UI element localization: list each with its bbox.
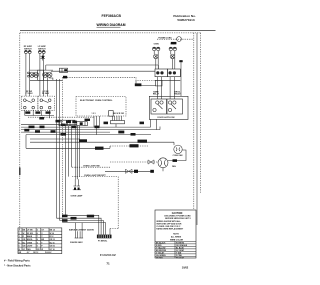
- oven lamp LP1: [154, 54, 159, 59]
- bus wire y115: [25, 115, 54, 117]
- wire label blob on y77: [63, 76, 67, 79]
- terminal block TB1: [153, 44, 160, 51]
- EOC pins left: [94, 116, 99, 135]
- wire junction run (y80): [30, 78, 63, 80]
- dashed stub left of box A: [136, 77, 155, 80]
- wire element top/bottom rails: [29, 65, 53, 96]
- wire label y146: [130, 144, 139, 147]
- title WIRING DIAGRAM: [97, 23, 126, 27]
- oven lamp receptacle: [73, 179, 81, 190]
- wire element feeds: [76, 223, 83, 232]
- svg-text:ELECTRONIC OVEN CONTROL: ELECTRONIC OVEN CONTROL: [80, 100, 113, 102]
- wire labels on bus: [24, 111, 144, 135]
- svg-text:W 600V: W 600V: [45, 252, 52, 254]
- svg-text:P8 240V: P8 240V: [42, 92, 50, 95]
- EOC sub block: [109, 111, 114, 117]
- wire label y142: [138, 140, 148, 143]
- svg-text:OR 12: OR 12: [33, 252, 38, 254]
- svg-text:LIGHT: LIGHT: [27, 246, 33, 248]
- bake relay label: [153, 90, 160, 95]
- svg-text:RELAY: RELAY: [174, 93, 181, 96]
- svg-text:OVEN: OVEN: [170, 44, 176, 46]
- svg-text:NOTE: NOTE: [173, 234, 179, 236]
- thermal limiter TL1: [40, 55, 45, 61]
- wire y148: [26, 147, 110, 149]
- svg-text:9: 9: [37, 242, 38, 244]
- connector under box A: [156, 77, 163, 99]
- wire y146 (dashed): [110, 145, 148, 147]
- strain relief blob: [171, 42, 177, 44]
- svg-text:DOOR LATCH SW: DOOR LATCH SW: [158, 116, 175, 119]
- bus wire y135: [26, 134, 151, 136]
- svg-text:SWITCH: SWITCH: [24, 48, 32, 50]
- diagram border top (dashed): [20, 32, 201, 34]
- wire S1 to switch box: [26, 54, 30, 97]
- element junction rect: [38, 70, 44, 80]
- svg-text:# - Field Wiring Parts: # - Field Wiring Parts: [4, 259, 30, 263]
- svg-text:R 12: R 12: [50, 236, 54, 238]
- svg-text:RATED WIRE REPLACEMENT: RATED WIRE REPLACEMENT: [156, 228, 184, 231]
- svg-text:ALL WIRES: ALL WIRES: [171, 236, 182, 239]
- surface switch S1 label: [24, 46, 33, 50]
- wires boxes to relays: [170, 77, 174, 99]
- svg-text:BROIL: BROIL: [27, 239, 33, 241]
- svg-text:3000W 240V: 3000W 240V: [70, 241, 83, 244]
- svg-text:GN 16: GN 16: [50, 246, 55, 248]
- svg-text:F1023132: F1023132: [100, 253, 116, 257]
- svg-text:8: 8: [37, 239, 38, 241]
- latch switch box A: [155, 69, 167, 77]
- svg-text:RELAY: RELAY: [153, 93, 160, 96]
- publication number: [173, 14, 196, 22]
- svg-text:FEF366ACB: FEF366ACB: [102, 14, 122, 18]
- svg-text:P7 240V: P7 240V: [25, 92, 33, 95]
- wire N run (y71): [51, 70, 155, 72]
- svg-text:NR RED: NR RED: [156, 257, 164, 259]
- svg-text:OVEN: OVEN: [27, 242, 33, 244]
- wire y85.5 with label: [135, 81, 156, 87]
- surface switch S2 label: [38, 46, 47, 50]
- bus wire y118: [28, 116, 94, 118]
- svg-text:2: 2: [19, 233, 20, 235]
- oven sensor line y171: [105, 170, 152, 172]
- bus wire y143: [30, 141, 174, 143]
- connector labels below EOC: [56, 113, 96, 126]
- svg-text:BAKE: BAKE: [27, 235, 33, 238]
- svg-text:W: W: [23, 233, 25, 235]
- wire fan feed (dashed): [110, 161, 158, 163]
- svg-text:OVEN LAMP: OVEN LAMP: [71, 195, 84, 198]
- wire L1 run (y64): [46, 65, 159, 69]
- bottom-left wiring table: [18, 228, 62, 254]
- wire conv fan loop: [168, 150, 186, 161]
- svg-text:3: 3: [19, 236, 20, 238]
- svg-text:SWITCH: SWITCH: [38, 48, 46, 50]
- thermal switch on fan line: [148, 160, 154, 164]
- wire label blob: [173, 159, 178, 162]
- convection fan motor: [174, 145, 182, 153]
- surface switch S1 contacts: [24, 50, 31, 53]
- svg-text:W: W: [41, 249, 43, 251]
- svg-text:5: 5: [19, 242, 20, 244]
- svg-text:OVEN LIGHT SW: OVEN LIGHT SW: [83, 165, 100, 167]
- svg-text:7: 7: [37, 236, 38, 238]
- small connector blocks: [59, 120, 75, 126]
- latch switch box B: [167, 69, 180, 77]
- notes and legend box: [155, 210, 196, 258]
- power cord line: [157, 38, 194, 40]
- broil relay label: [174, 91, 181, 95]
- svg-text:GY 16: GY 16: [50, 249, 55, 251]
- svg-text:4: 4: [19, 238, 20, 241]
- header rule: [20, 30, 216, 32]
- svg-text:PR GRAY: PR GRAY: [176, 256, 185, 259]
- connector J1 on N run: [60, 68, 68, 72]
- bundle turn right horizontals: [57, 215, 106, 234]
- svg-text:OVEN LIGHT RECEPT: OVEN LIGHT RECEPT: [84, 175, 106, 177]
- wire stub x26: [25, 135, 27, 149]
- ground label patch on left border: [19, 168, 21, 176]
- svg-text:WIRING DIAGRAM: WIRING DIAGRAM: [97, 23, 126, 27]
- cooling fan motor: [158, 158, 168, 168]
- surface switch SW2 box: [38, 91, 54, 110]
- wires lamp cluster down: [154, 51, 183, 97]
- svg-text:LF SW: LF SW: [27, 230, 33, 232]
- surface switch SW1 box: [22, 91, 38, 110]
- wire bundle verticals: [57, 77, 80, 222]
- bus wire y139: [30, 138, 80, 140]
- oven lamp LP2: [170, 54, 175, 59]
- bake relay K1: [151, 99, 167, 114]
- bus wire y129: [21, 129, 160, 131]
- sensor connector blob: [150, 170, 154, 173]
- svg-text:P1 BROIL: P1 BROIL: [98, 241, 108, 243]
- broil relay K2: [167, 99, 183, 114]
- svg-text:6: 6: [37, 233, 38, 235]
- wire S2 to switch box: [40, 54, 44, 97]
- wire fan drop: [162, 168, 164, 172]
- svg-text:BEFORE SERVICING UNIT X: BEFORE SERVICING UNIT X: [165, 218, 191, 220]
- power cord terminal ring: [177, 37, 182, 42]
- svg-text:W 14: W 14: [50, 232, 54, 235]
- svg-text:FAN: FAN: [172, 165, 176, 168]
- wire run (y77, dashed): [63, 76, 137, 78]
- surface element E2 (right pair): [43, 72, 52, 77]
- svg-text:10/02: 10/02: [182, 265, 189, 269]
- svg-text:RF SW: RF SW: [27, 233, 33, 235]
- switch box stubs to bus: [25, 110, 50, 118]
- svg-text:5995271913: 5995271913: [177, 18, 194, 22]
- table text: [19, 229, 55, 255]
- svg-text:71: 71: [106, 262, 110, 266]
- EOC pins right: [113, 116, 122, 121]
- wire under boxes: [155, 79, 180, 81]
- svg-text:6: 6: [19, 246, 20, 248]
- svg-text:1 2 3: 1 2 3: [92, 113, 96, 115]
- surface element E1 (left pair): [29, 72, 38, 77]
- wire labels bottom bundle: [62, 215, 94, 222]
- right bus wire L2: [196, 33, 198, 225]
- svg-text:0: 0: [37, 246, 38, 248]
- surface switch S2 contacts: [38, 50, 45, 53]
- fuse on y171: [126, 169, 139, 173]
- svg-text:BK W R OR: BK W R OR: [113, 113, 124, 115]
- wire relay to bus: [156, 119, 158, 129]
- oven light line (dashed): [72, 175, 118, 177]
- right bus wire GND: [200, 33, 202, 193]
- wire label y148: [95, 147, 104, 150]
- svg-text:5: 5: [37, 230, 38, 232]
- svg-text:1: 1: [19, 230, 20, 232]
- broil connector block P1: [97, 235, 112, 239]
- bake element: [75, 231, 84, 238]
- EOC connector P1: [77, 122, 88, 126]
- svg-text:OR 12: OR 12: [50, 239, 55, 241]
- terminal block TB2: [169, 44, 176, 51]
- oven light switch label line (dashed): [72, 165, 110, 167]
- diagram border left (dashed): [19, 33, 21, 230]
- bus wire y132: [21, 131, 110, 133]
- svg-text:BL 16: BL 16: [50, 242, 55, 244]
- ring terminals at E1: [27, 72, 29, 77]
- legend text: [156, 242, 188, 260]
- bus wire y124: [21, 124, 77, 126]
- svg-text:BK 14: BK 14: [50, 229, 55, 232]
- EOC connector P2: [111, 121, 125, 124]
- svg-text:OVEN: OVEN: [154, 44, 160, 46]
- svg-text:CONV FAN: CONV FAN: [173, 154, 183, 157]
- svg-text:* - Non-Stocked Parts: * - Non-Stocked Parts: [4, 264, 31, 268]
- EOC box: [76, 97, 126, 116]
- right bus wire N: [193, 33, 195, 210]
- relay enclosure: [149, 96, 188, 119]
- wire x118 drop (dashed): [110, 177, 118, 235]
